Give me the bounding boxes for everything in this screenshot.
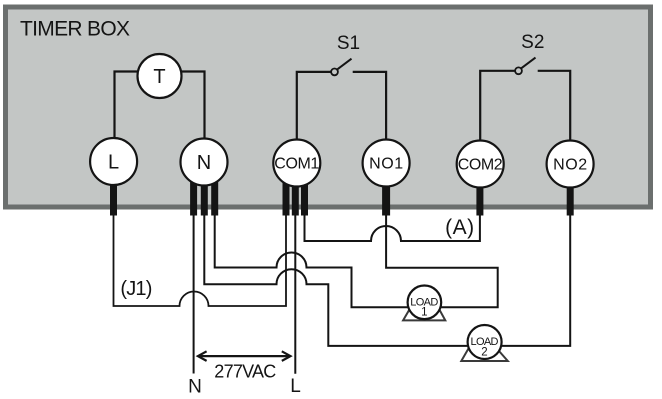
- wire L-T-N: [115, 72, 205, 167]
- timer box enclosure: [6, 7, 651, 207]
- terminal bars N (3): [190, 172, 197, 216]
- terminal circle COM1: [273, 140, 320, 187]
- svg-text:TIMER BOX: TIMER BOX: [20, 17, 130, 40]
- wire N right bar to LOAD1 left (hop over COM1 wires): [215, 215, 408, 307]
- svg-text:S1: S1: [337, 33, 360, 54]
- LOAD1 motor symbol: [403, 286, 445, 321]
- terminal circle NO1: [363, 140, 410, 187]
- svg-text:2: 2: [481, 346, 487, 358]
- 277VAC dimension arrow: [198, 351, 291, 361]
- terminal bar COM2: [476, 172, 483, 216]
- wire S2 to NO2: [538, 71, 571, 166]
- LOAD2 motor symbol: [461, 325, 508, 361]
- svg-text:NO2: NO2: [553, 157, 587, 174]
- wire N mid bar to LOAD2 left (hop over COM1 wires): [204, 215, 467, 346]
- LOAD2 trapezoid base: [461, 349, 508, 361]
- wire jumper A: COM1 right bar to COM2 (hop over NO1 wire): [305, 215, 480, 241]
- terminal bar NO2: [567, 172, 574, 216]
- terminal circle COM2: [457, 141, 504, 188]
- svg-text:T: T: [153, 66, 165, 88]
- svg-text:COM1: COM1: [274, 156, 319, 173]
- switch S1 blade: [337, 59, 351, 70]
- svg-text:277VAC: 277VAC: [214, 361, 276, 381]
- terminal circle NO2: [547, 141, 594, 188]
- LOAD1 trapezoid base: [403, 309, 445, 321]
- svg-text:(J1): (J1): [120, 278, 152, 300]
- wire NO1 to LOAD1 right: [386, 215, 498, 307]
- svg-text:NO1: NO1: [369, 156, 403, 173]
- terminal bars COM1 (3): [283, 172, 290, 216]
- timer circle T: [138, 54, 182, 98]
- wire S1 to NO1: [353, 72, 386, 166]
- wire NO2 to LOAD2 right: [502, 215, 571, 346]
- svg-text:N: N: [197, 152, 211, 174]
- wire COM1 to S1 pivot: [297, 72, 331, 166]
- svg-text:S2: S2: [521, 32, 544, 53]
- svg-text:L: L: [108, 152, 119, 174]
- switch S2 pivot circle: [515, 67, 522, 74]
- LOAD1 circle: [408, 286, 442, 320]
- terminal circle N: [181, 139, 228, 186]
- terminal bar L: [110, 172, 117, 216]
- LOAD2 circle: [468, 325, 502, 359]
- terminal circle L: [90, 138, 137, 185]
- svg-text:L: L: [290, 376, 301, 397]
- wire L input: COM1 mid bar down to L label: [294, 215, 296, 374]
- wire COM2 to S2 pivot: [480, 71, 515, 166]
- terminal bar NO1: [382, 172, 390, 216]
- svg-text:COM2: COM2: [458, 157, 503, 174]
- svg-text:N: N: [188, 377, 202, 398]
- wire J1: L terminal to COM1 left bar (hop over N input wire): [114, 215, 287, 306]
- switch S1 pivot circle: [331, 69, 338, 76]
- svg-text:1: 1: [421, 307, 427, 319]
- svg-text:(A): (A): [445, 216, 474, 239]
- wire N input: N left bar down to N label: [193, 215, 195, 374]
- switch S2 blade: [521, 58, 535, 69]
